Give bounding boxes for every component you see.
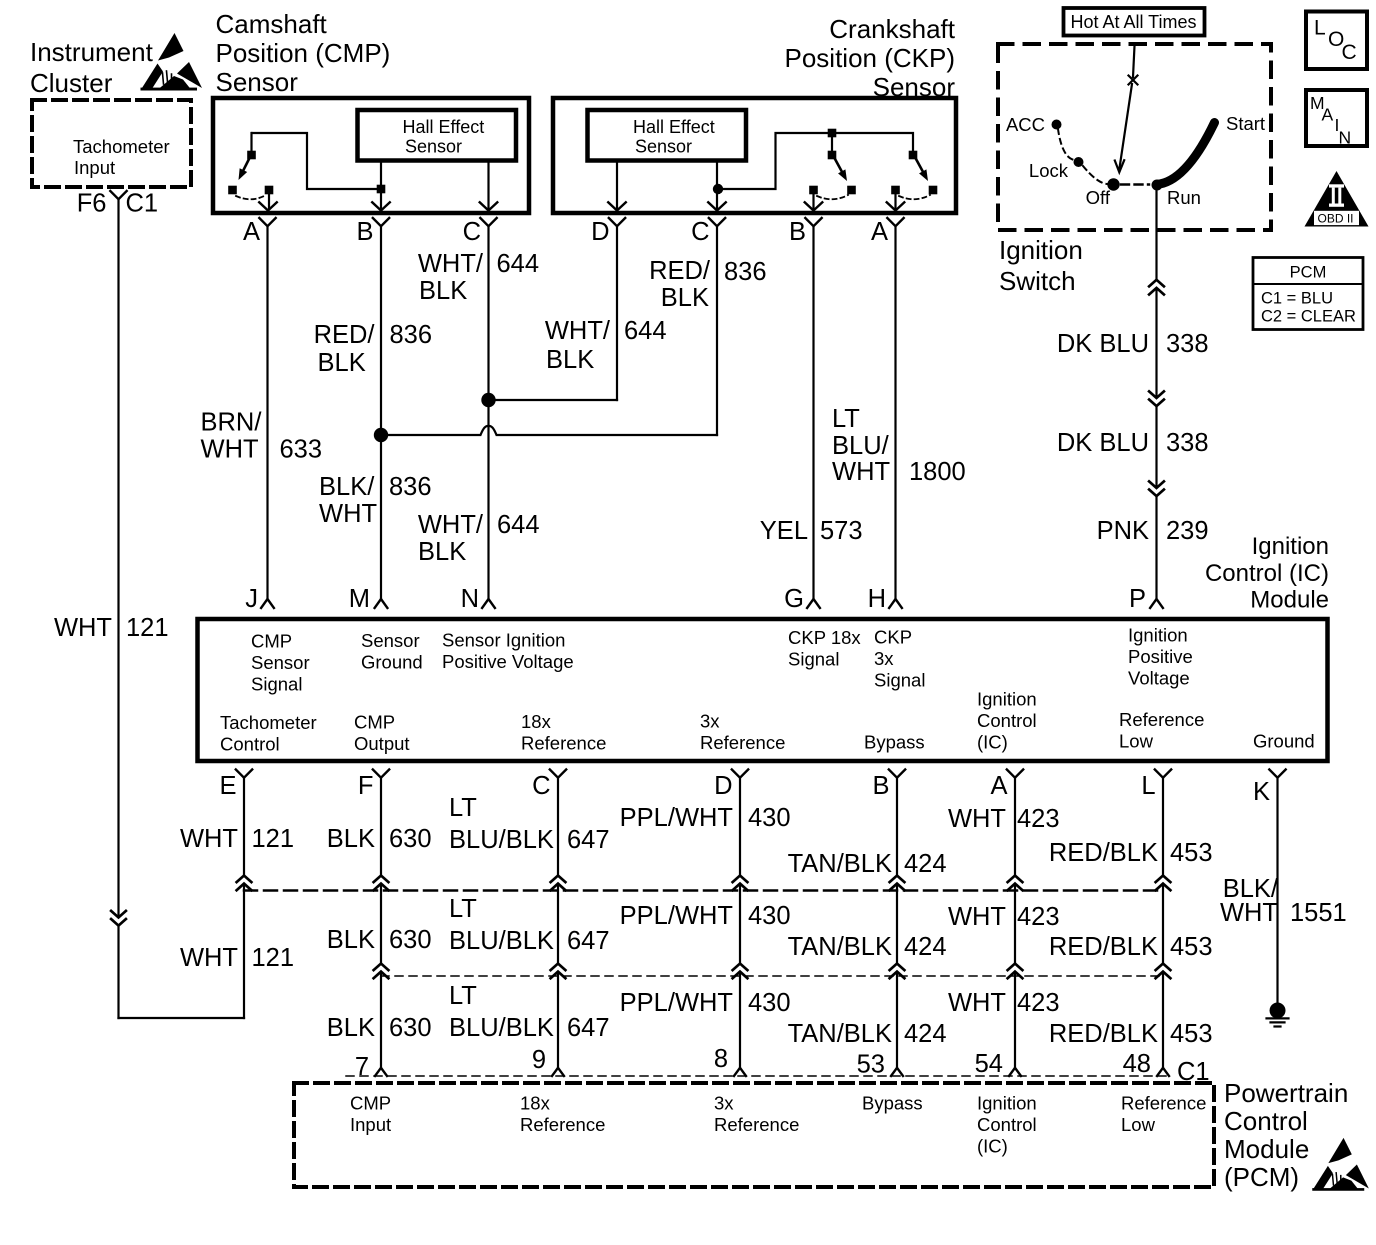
svg-text:WHT/: WHT/	[418, 250, 484, 278]
svg-text:430: 430	[748, 902, 791, 930]
svg-text:WHT: WHT	[180, 944, 238, 972]
svg-text:Positive Voltage: Positive Voltage	[442, 651, 574, 672]
svg-text:C: C	[691, 218, 709, 246]
svg-text:ACC: ACC	[1006, 114, 1045, 135]
svg-text:D: D	[591, 218, 609, 246]
svg-text:RED/BLK: RED/BLK	[1049, 839, 1158, 867]
svg-text:LT: LT	[449, 794, 477, 822]
svg-text:E: E	[219, 772, 236, 800]
svg-text:D: D	[714, 772, 732, 800]
svg-text:Control: Control	[1224, 1106, 1308, 1136]
svg-text:LT: LT	[832, 405, 860, 433]
svg-text:BLK: BLK	[661, 284, 709, 312]
svg-text:WHT/: WHT/	[545, 317, 611, 345]
svg-text:L: L	[1141, 772, 1155, 800]
svg-text:BLK: BLK	[419, 277, 467, 305]
svg-text:424: 424	[904, 933, 947, 961]
svg-text:BLU/BLK: BLU/BLK	[449, 927, 554, 955]
svg-text:Sensor: Sensor	[405, 137, 462, 157]
svg-text:Crankshaft: Crankshaft	[829, 14, 955, 44]
svg-text:Reference: Reference	[1119, 709, 1204, 730]
svg-text:644: 644	[497, 250, 540, 278]
svg-text:C: C	[463, 218, 481, 246]
svg-text:BLK: BLK	[327, 825, 375, 853]
svg-text:836: 836	[390, 321, 433, 349]
svg-text:Hot At All Times: Hot At All Times	[1070, 12, 1196, 32]
svg-text:Off: Off	[1086, 187, 1111, 208]
svg-text:PPL/WHT: PPL/WHT	[620, 902, 733, 930]
svg-text:3x: 3x	[700, 711, 720, 732]
svg-text:Tachometer: Tachometer	[73, 136, 170, 157]
svg-text:7: 7	[355, 1053, 369, 1081]
svg-text:453: 453	[1170, 839, 1213, 867]
svg-text:WHT: WHT	[948, 903, 1006, 931]
svg-text:Tachometer: Tachometer	[220, 712, 317, 733]
svg-text:PNK: PNK	[1097, 517, 1149, 545]
svg-text:121: 121	[126, 614, 169, 642]
svg-text:3x: 3x	[714, 1093, 734, 1114]
svg-text:CMP: CMP	[350, 1093, 391, 1114]
svg-text:BLK: BLK	[318, 349, 366, 377]
svg-text:Signal: Signal	[788, 649, 839, 670]
svg-text:A: A	[990, 772, 1007, 800]
svg-text:C: C	[532, 772, 550, 800]
svg-text:Input: Input	[350, 1114, 391, 1135]
svg-text:18x: 18x	[521, 711, 552, 732]
svg-text:A: A	[1322, 105, 1334, 125]
svg-text:Run: Run	[1167, 187, 1201, 208]
svg-text:BLU/BLK: BLU/BLK	[449, 1014, 554, 1042]
svg-text:Reference: Reference	[521, 733, 606, 754]
svg-text:53: 53	[857, 1051, 885, 1079]
svg-text:573: 573	[820, 517, 863, 545]
svg-text:CMP: CMP	[354, 712, 395, 733]
svg-text:54: 54	[975, 1050, 1003, 1078]
svg-text:Positive: Positive	[1128, 646, 1193, 667]
svg-text:Ignition: Ignition	[977, 1093, 1037, 1114]
svg-text:Reference: Reference	[714, 1114, 799, 1135]
svg-text:G: G	[784, 585, 804, 613]
svg-text:WHT: WHT	[201, 436, 259, 464]
svg-text:Hall Effect: Hall Effect	[633, 117, 715, 137]
svg-text:RED/: RED/	[649, 257, 711, 285]
svg-text:Powertrain: Powertrain	[1224, 1078, 1348, 1108]
svg-text:424: 424	[904, 850, 947, 878]
svg-text:WHT/: WHT/	[418, 511, 484, 539]
svg-text:WHT: WHT	[54, 614, 112, 642]
svg-text:Sensor: Sensor	[251, 652, 310, 673]
svg-text:BLK: BLK	[546, 346, 594, 374]
svg-text:YEL: YEL	[760, 517, 808, 545]
svg-text:430: 430	[748, 989, 791, 1017]
svg-text:Ignition: Ignition	[1252, 533, 1329, 560]
svg-text:WHT: WHT	[180, 825, 238, 853]
svg-text:647: 647	[567, 826, 610, 854]
svg-text:836: 836	[389, 473, 432, 501]
svg-text:644: 644	[624, 317, 667, 345]
svg-text:Sensor: Sensor	[361, 630, 420, 651]
svg-text:424: 424	[904, 1020, 947, 1048]
svg-text:TAN/BLK: TAN/BLK	[788, 1020, 892, 1048]
svg-text:Camshaft: Camshaft	[216, 9, 328, 39]
svg-text:Module: Module	[1250, 587, 1329, 614]
svg-text:WHT: WHT	[319, 500, 377, 528]
svg-text:239: 239	[1166, 517, 1209, 545]
svg-text:Position (CKP): Position (CKP)	[785, 43, 956, 73]
svg-text:WHT: WHT	[948, 805, 1006, 833]
svg-text:Switch: Switch	[999, 266, 1076, 296]
svg-text:630: 630	[389, 825, 432, 853]
svg-text:B: B	[356, 218, 373, 246]
svg-text:Signal: Signal	[251, 674, 302, 695]
svg-text:Input: Input	[74, 157, 115, 178]
svg-text:Sensor: Sensor	[216, 67, 299, 97]
svg-text:(IC): (IC)	[977, 1136, 1008, 1157]
svg-text:(IC): (IC)	[977, 732, 1008, 753]
svg-text:C1: C1	[126, 190, 159, 218]
svg-text:B: B	[789, 218, 806, 246]
svg-text:Bypass: Bypass	[864, 732, 925, 753]
svg-text:Sensor Ignition: Sensor Ignition	[442, 630, 565, 651]
svg-text:BLK/: BLK/	[319, 473, 375, 501]
svg-text:453: 453	[1170, 933, 1213, 961]
svg-text:WHT: WHT	[832, 458, 890, 486]
svg-text:423: 423	[1017, 805, 1060, 833]
svg-text:Instrument: Instrument	[30, 37, 154, 67]
svg-text:Lock: Lock	[1029, 160, 1069, 181]
svg-text:430: 430	[748, 804, 791, 832]
svg-text:BLK: BLK	[327, 926, 375, 954]
svg-text:Ignition: Ignition	[999, 235, 1083, 265]
svg-text:633: 633	[280, 436, 323, 464]
svg-text:RED/: RED/	[314, 321, 376, 349]
svg-text:Start: Start	[1226, 113, 1265, 134]
svg-text:C2 = CLEAR: C2 = CLEAR	[1261, 308, 1356, 326]
svg-text:CMP: CMP	[251, 631, 292, 652]
svg-text:Low: Low	[1119, 731, 1154, 752]
svg-text:CKP 18x: CKP 18x	[788, 627, 861, 648]
svg-text:Cluster: Cluster	[30, 68, 113, 98]
svg-text:Control (IC): Control (IC)	[1205, 560, 1329, 587]
svg-text:B: B	[872, 772, 889, 800]
svg-text:TAN/BLK: TAN/BLK	[788, 850, 892, 878]
svg-text:PCM: PCM	[1290, 264, 1327, 282]
svg-text:Control: Control	[977, 1114, 1037, 1135]
svg-text:BRN/: BRN/	[201, 409, 263, 437]
svg-text:PPL/WHT: PPL/WHT	[620, 804, 733, 832]
svg-text:BLU/: BLU/	[832, 432, 890, 460]
svg-text:630: 630	[389, 926, 432, 954]
svg-text:644: 644	[497, 511, 540, 539]
svg-text:CKP: CKP	[874, 627, 912, 648]
svg-text:423: 423	[1017, 903, 1060, 931]
svg-text:Signal: Signal	[874, 670, 925, 691]
svg-text:1551: 1551	[1290, 899, 1347, 927]
svg-text:Ignition: Ignition	[977, 689, 1037, 710]
svg-text:BLK: BLK	[327, 1014, 375, 1042]
svg-text:Ground: Ground	[1253, 731, 1315, 752]
svg-text:A: A	[243, 218, 260, 246]
svg-text:F: F	[358, 772, 374, 800]
svg-text:WHT: WHT	[948, 989, 1006, 1017]
svg-text:Control: Control	[977, 710, 1037, 731]
svg-text:1800: 1800	[909, 458, 966, 486]
svg-text:121: 121	[252, 825, 295, 853]
svg-text:F6: F6	[77, 190, 107, 218]
svg-text:LT: LT	[449, 895, 477, 923]
svg-text:647: 647	[567, 1014, 610, 1042]
svg-text:Module: Module	[1224, 1134, 1309, 1164]
svg-text:3x: 3x	[874, 648, 894, 669]
svg-text:OBD II: OBD II	[1317, 211, 1353, 225]
svg-text:A: A	[871, 218, 888, 246]
svg-text:N: N	[461, 585, 479, 613]
svg-text:P: P	[1129, 585, 1146, 613]
svg-text:8: 8	[714, 1045, 728, 1073]
svg-text:BLK: BLK	[418, 538, 466, 566]
svg-text:Voltage: Voltage	[1128, 668, 1190, 689]
svg-text:Bypass: Bypass	[862, 1093, 923, 1114]
svg-text:121: 121	[252, 944, 295, 972]
svg-text:Ground: Ground	[361, 652, 423, 673]
svg-text:M: M	[349, 585, 370, 613]
svg-text:Ignition: Ignition	[1128, 625, 1188, 646]
svg-text:9: 9	[532, 1046, 546, 1074]
svg-text:Control: Control	[220, 734, 280, 755]
svg-text:C: C	[1342, 41, 1357, 64]
svg-text:Position (CMP): Position (CMP)	[216, 38, 391, 68]
svg-text:338: 338	[1166, 330, 1209, 358]
svg-text:WHT: WHT	[1220, 899, 1278, 927]
svg-text:PPL/WHT: PPL/WHT	[620, 989, 733, 1017]
svg-text:RED/BLK: RED/BLK	[1049, 933, 1158, 961]
svg-text:423: 423	[1017, 989, 1060, 1017]
svg-text:Reference: Reference	[1121, 1093, 1206, 1114]
svg-text:48: 48	[1123, 1050, 1151, 1078]
svg-text:TAN/BLK: TAN/BLK	[788, 933, 892, 961]
svg-text:C1 = BLU: C1 = BLU	[1261, 290, 1333, 308]
svg-text:L: L	[1314, 17, 1326, 40]
svg-text:N: N	[1339, 128, 1352, 148]
svg-text:Hall Effect: Hall Effect	[403, 117, 485, 137]
svg-text:(PCM): (PCM)	[1224, 1162, 1299, 1192]
svg-text:Reference: Reference	[700, 732, 785, 753]
svg-text:18x: 18x	[520, 1093, 551, 1114]
svg-text:Output: Output	[354, 733, 410, 754]
svg-text:J: J	[245, 585, 258, 613]
svg-text:338: 338	[1166, 429, 1209, 457]
svg-text:630: 630	[389, 1014, 432, 1042]
svg-text:Sensor: Sensor	[635, 137, 692, 157]
svg-text:RED/BLK: RED/BLK	[1049, 1020, 1158, 1048]
svg-text:Low: Low	[1121, 1114, 1156, 1135]
svg-text:453: 453	[1170, 1020, 1213, 1048]
svg-text:H: H	[868, 585, 886, 613]
svg-text:647: 647	[567, 927, 610, 955]
svg-text:836: 836	[724, 258, 767, 286]
svg-text:BLU/BLK: BLU/BLK	[449, 826, 554, 854]
svg-text:Reference: Reference	[520, 1114, 605, 1135]
svg-text:K: K	[1253, 778, 1270, 806]
svg-text:LT: LT	[449, 982, 477, 1010]
svg-text:DK BLU: DK BLU	[1057, 429, 1149, 457]
svg-text:DK BLU: DK BLU	[1057, 330, 1149, 358]
